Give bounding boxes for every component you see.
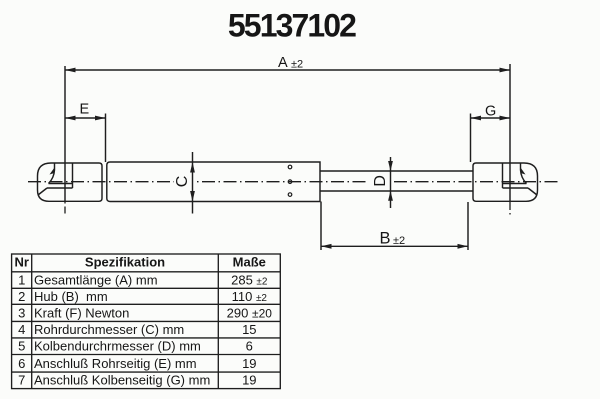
- table row line 2: [12, 303, 281, 305]
- svg-text:Spezifikation: Spezifikation: [85, 255, 165, 270]
- dimension B arrow left: [321, 244, 332, 249]
- dimension G arrow right: [500, 116, 511, 121]
- right connector lower chamfer: [528, 188, 537, 195]
- dimension B right extension line: [467, 202, 469, 250]
- right connector claw: [521, 163, 527, 184]
- svg-text:Anschluß Kolbenseitig (G) mm: Anschluß Kolbenseitig (G) mm: [34, 373, 210, 388]
- piston rod bottom edge: [320, 190, 473, 192]
- table row line 3: [12, 320, 281, 322]
- svg-text:A: A: [278, 55, 288, 71]
- left connector lower-left chamfer: [38, 188, 47, 195]
- dimension D arrow lower: [388, 191, 393, 201]
- dimension E arrow left: [65, 116, 76, 121]
- dimension E arrow right: [95, 116, 106, 121]
- svg-text:5: 5: [18, 339, 25, 354]
- horizontal center line middle segment: [197, 181, 369, 183]
- svg-text:±2: ±2: [393, 235, 405, 247]
- svg-text:Anschluß Rohrseitig (E) mm: Anschluß Rohrseitig (E) mm: [34, 356, 197, 371]
- left connector claw point: [50, 168, 55, 175]
- table column line Spezifikation/Masse: [217, 254, 219, 389]
- dimension A extension line right (x=510): [509, 64, 511, 201]
- table outer border: [12, 254, 281, 389]
- svg-text:Maße: Maße: [233, 255, 266, 270]
- tube (cylinder body): [107, 162, 320, 202]
- dimension B arrow right: [458, 244, 469, 249]
- left connector socket housing edge: [72, 163, 74, 188]
- tube vent hole bottom: [288, 193, 292, 197]
- table row line 5: [12, 354, 281, 356]
- dimension C arrow down: [190, 191, 195, 202]
- svg-text:6: 6: [18, 356, 25, 371]
- svg-text:Hub (B) mm: Hub (B) mm: [34, 289, 108, 304]
- svg-text:15: 15: [242, 322, 256, 337]
- svg-text:290 ±20: 290 ±20: [227, 305, 273, 320]
- dimension A extension line left (x=65): [64, 66, 66, 201]
- svg-text:1: 1: [18, 272, 25, 287]
- right connector outline: [473, 163, 538, 201]
- horizontal center line left segment: [28, 181, 174, 183]
- svg-text:E: E: [80, 102, 90, 118]
- dimension G line: [471, 117, 511, 119]
- right connector (ball socket, mirrored): [473, 163, 538, 201]
- svg-text:4: 4: [18, 322, 25, 337]
- svg-text:2: 2: [18, 289, 25, 304]
- right connector jaw shelf top: [503, 183, 527, 185]
- dimension D arrow upper: [388, 161, 393, 171]
- dimension E right extension line: [105, 114, 107, 163]
- svg-text:C: C: [174, 176, 191, 188]
- right connector jaw shelf bottom: [503, 187, 529, 189]
- table row line under header: [12, 271, 281, 273]
- dimension B line: [321, 245, 468, 247]
- dimension E line: [65, 117, 106, 119]
- svg-text:7: 7: [18, 373, 25, 388]
- tube vent hole middle: [288, 180, 292, 184]
- left connector vertical center line tail: [64, 202, 66, 214]
- table row line 6: [12, 371, 281, 373]
- dimension A arrow left: [65, 68, 76, 73]
- table row line 4: [12, 337, 281, 339]
- svg-text:6: 6: [246, 339, 253, 354]
- svg-text:G: G: [485, 104, 496, 120]
- svg-text:Gesamtlänge (A) mm: Gesamtlänge (A) mm: [34, 272, 158, 287]
- table row line 1: [12, 287, 281, 289]
- horizontal center line right segment: [394, 181, 558, 183]
- dimension A arrow right: [500, 68, 511, 73]
- svg-text:19: 19: [242, 373, 256, 388]
- svg-text:Nr: Nr: [14, 255, 28, 270]
- svg-text:55137102: 55137102: [228, 7, 356, 43]
- svg-text:D: D: [372, 175, 389, 187]
- dimension C arrow up: [190, 162, 195, 173]
- right connector vertical center line tail: [509, 202, 511, 215]
- svg-text:3: 3: [18, 305, 25, 320]
- right connector socket housing edge: [502, 163, 504, 188]
- left connector jaw shelf bottom: [47, 187, 73, 189]
- svg-text:Kraft (F) Newton: Kraft (F) Newton: [34, 305, 129, 320]
- dimension D line: [390, 157, 392, 208]
- table column line Nr/Spezifikation: [31, 254, 33, 389]
- dimension G left extension line: [470, 114, 472, 163]
- svg-text:Kolbendurchrmesser (D) mm: Kolbendurchrmesser (D) mm: [34, 339, 201, 354]
- left connector jaw shelf top: [49, 183, 73, 185]
- specification table: [12, 254, 281, 389]
- svg-text:19: 19: [242, 356, 256, 371]
- svg-text:B: B: [380, 230, 391, 248]
- piston rod top edge: [320, 170, 473, 172]
- dimension C line: [192, 152, 194, 214]
- dimension G arrow left: [471, 116, 482, 121]
- tube vent hole top: [288, 165, 292, 169]
- svg-text:Rohrdurchmesser (C) mm: Rohrdurchmesser (C) mm: [34, 322, 184, 337]
- dimension B left extension line: [320, 202, 322, 251]
- right connector claw point: [521, 168, 526, 175]
- left connector (ball socket) outline: [38, 163, 103, 201]
- dimension A line: [65, 69, 510, 71]
- left connector claw: [49, 163, 55, 184]
- svg-text:±2: ±2: [291, 59, 303, 71]
